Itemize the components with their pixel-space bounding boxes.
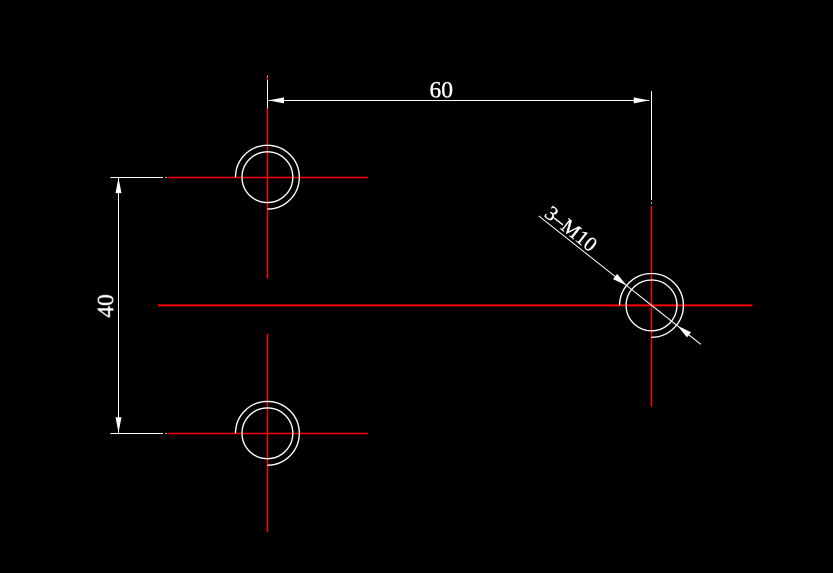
arrowhead: leader upper-left on C3 (613, 274, 627, 286)
wire: red tick at top of C1 vertical centerline (267, 77, 269, 80)
hole C1 outer thread arc (3/4) (236, 145, 300, 209)
wire: extension line (white) above hole C1 for 60 dim (267, 76, 269, 109)
wire: long horizontal centerline through C3 (red) (158, 304, 753, 306)
wire: C1 vertical centerline (red) (267, 109, 269, 278)
wire: C1 horizontal centerline (red) (168, 177, 368, 179)
svg-text:60: 60 (430, 77, 454, 103)
hole C2 outer thread arc (3/4) (236, 401, 300, 465)
hole C2 inner circle (242, 408, 293, 459)
arrowhead: leader lower-right on C3 (677, 326, 691, 338)
wire: leader line through C3 (diameter line) (539, 216, 701, 344)
node: white dash end of bottom extension (165, 433, 166, 435)
hole C1 inner circle (242, 152, 293, 203)
wire: C2 vertical centerline (red) (267, 334, 269, 533)
arrowhead: dim 60 right (634, 97, 649, 103)
wire: bottom extension line for 40 dim (110, 433, 163, 435)
hole C3 inner circle (626, 280, 677, 331)
wire: dim 40 line (118, 178, 120, 433)
wire: dim 60 line (269, 100, 649, 102)
hole C3 outer thread arc (3/4) (620, 274, 684, 338)
arrowhead: dim 60 left (269, 97, 284, 103)
node: white dot on right extension (651, 202, 653, 203)
wire: C2 horizontal centerline (red) (168, 433, 368, 435)
wire: C3 vertical centerline (red) (651, 206, 653, 407)
node: white dash end of top extension (165, 177, 166, 179)
wire: top extension line for 40 dim (110, 177, 163, 179)
svg-text:40: 40 (93, 294, 119, 318)
arrowhead: dim 40 top (116, 178, 122, 193)
arrowhead: dim 40 bottom (116, 417, 122, 432)
wire: right extension line for 60 dim (651, 91, 653, 200)
